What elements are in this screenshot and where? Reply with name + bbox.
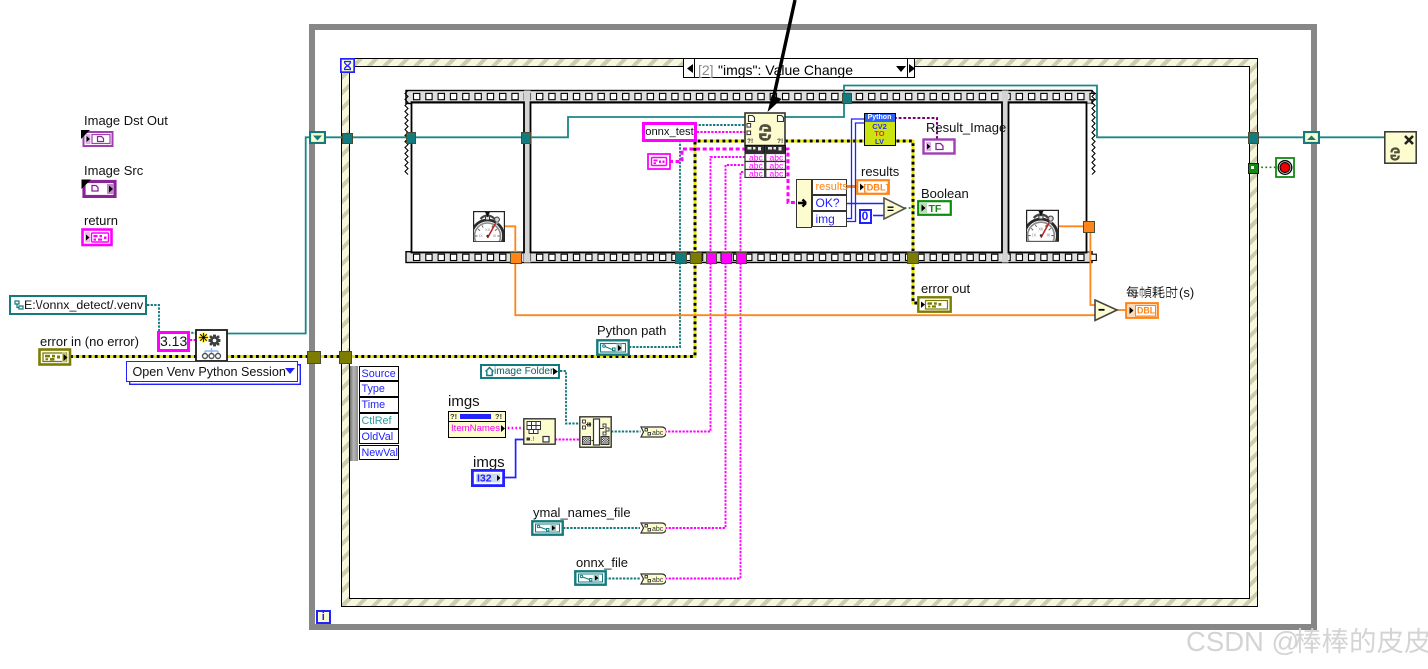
control onnx_file	[574, 570, 607, 586]
label ymal_names_file	[533, 506, 631, 519]
constant image Folder	[480, 364, 560, 380]
node Close Python Session	[1384, 131, 1417, 164]
tunnel: img path string bottom strip	[706, 252, 718, 264]
terminal imgs I32	[471, 469, 505, 487]
wire: ymal names string to python node	[665, 165, 745, 528]
event timeout terminal (hourglass)	[340, 58, 355, 73]
wire: session across loop and event into sequence	[325, 117, 745, 137]
control ymal_names_file	[531, 520, 564, 536]
tunnel: error out bottom strip	[907, 252, 919, 264]
wire: stop button to event tunnel	[1257, 166, 1276, 168]
wire: image Folder path to Build Path	[560, 371, 580, 424]
control Python path	[596, 339, 630, 356]
indicator 每帧耗时 DBL	[1125, 302, 1159, 319]
wire: python session from Open Venv up into while loop	[227, 137, 310, 333]
tunnel: error wire bottom strip	[690, 252, 702, 264]
event structure border	[341, 58, 1258, 607]
label imgs (property node)	[448, 394, 480, 409]
tunnel: frame1 tick count bottom	[510, 252, 522, 264]
node Python Node (run onnx_test)	[744, 112, 787, 178]
terminal Image Src	[80, 177, 118, 198]
wire: 0 constant to equals node	[873, 215, 884, 217]
tunnel: error in on event border	[339, 351, 353, 365]
node Index Array	[523, 418, 556, 445]
wire: error in across diagram to python node	[70, 141, 745, 357]
wire: CV2 TO LV image out to Result_Image	[894, 118, 937, 140]
node CV2 TO LV	[864, 113, 896, 147]
wire: 3.13 version string to Open Venv node	[190, 339, 196, 341]
wire: img 2D array to CV2 TO LV node	[847, 119, 864, 219]
event data node	[350, 366, 398, 461]
wire: equals result to Boolean indicator	[905, 207, 919, 209]
label box Open Venv Python Session	[126, 361, 298, 382]
event structure selector label	[683, 58, 915, 78]
label Image Src	[84, 164, 143, 177]
wire: results array to DBL array indicator	[847, 185, 857, 188]
indicator Boolean TF	[917, 200, 952, 216]
wire: imgs I32 index to Index Array	[504, 440, 524, 478]
label Image Dst Out	[84, 114, 168, 127]
tunnel: stop boolean on event border	[1248, 163, 1260, 175]
wire: frame1 tick count down and across to subtract	[504, 226, 1095, 315]
constant venv path	[9, 295, 147, 315]
tunnel: session out event border	[1248, 132, 1260, 144]
tunnel: error in on while loop border	[307, 351, 321, 365]
label error out	[921, 282, 970, 295]
wire: image path string to python node	[665, 157, 746, 432]
wire: session from python node to top tunnel and right to event/loop edge	[785, 86, 1304, 138]
constant onnx_test	[642, 122, 697, 143]
stop button	[1275, 157, 1295, 178]
label onnx_file	[576, 556, 628, 569]
property node imgs ItemNames	[448, 411, 506, 438]
wire: cluster constant to python node	[669, 149, 745, 162]
node Build Path	[579, 416, 612, 448]
wire: ItemNames property to Index Array	[504, 427, 524, 430]
tunnel: onnx string bottom strip	[736, 252, 748, 264]
wire: session from loop shift register to Close Python Session	[1318, 136, 1384, 138]
node Path To String (ymal)	[640, 522, 666, 534]
label Boolean	[921, 187, 969, 200]
node Tick Count frame 3 (stopwatch)	[1026, 209, 1059, 243]
node Subtract	[1094, 299, 1119, 322]
wire: onnx_test module name to python node	[668, 131, 745, 133]
wire: frame3 tick count out to subtract	[1059, 226, 1095, 305]
node Path To String (onnx)	[640, 573, 666, 585]
node Path To String (image path)	[640, 426, 666, 438]
tunnel: frame3 tick count right border	[1083, 221, 1095, 233]
constant 0	[859, 209, 872, 224]
node equals	[883, 197, 907, 220]
label Result_Image	[926, 121, 1006, 134]
wire: result cluster from python node to unbundle	[785, 149, 796, 203]
node Unbundle By Name	[796, 179, 848, 228]
wire: venv path constant to Open Venv node	[147, 305, 196, 333]
label Python path	[597, 324, 666, 337]
label imgs (I32)	[473, 455, 505, 470]
shift register left	[309, 131, 326, 144]
label error in (no error)	[40, 335, 139, 348]
tunnel: session out top of sequence	[842, 93, 852, 105]
terminal Result_Image	[922, 138, 956, 155]
node Open Venv Python Session	[195, 329, 228, 362]
tunnel: python path bottom strip	[675, 252, 687, 264]
wire: onnx file string to python node	[665, 172, 745, 579]
constant empty cluster	[647, 153, 671, 170]
label return	[84, 214, 118, 227]
node Tick Count frame 1 (stopwatch)	[473, 211, 505, 242]
terminal error in	[38, 348, 72, 366]
wire: Python path control up into python node	[629, 125, 745, 347]
constant 3.13	[157, 331, 190, 352]
wire: ymal_names_file to Path To String	[563, 527, 640, 529]
wire: OK? to equals node	[847, 203, 884, 205]
tunnel: session into sequence frame 1	[406, 132, 417, 144]
tunnel: session on event left border	[342, 133, 353, 144]
label results	[861, 165, 899, 178]
wire: error out from python node down to error out indicator	[785, 141, 918, 303]
annotation arrow pointing to python node	[740, 0, 820, 115]
while loop border	[309, 24, 1317, 630]
wire: subtract result to DBL indicator	[1117, 309, 1126, 311]
indicator error out	[917, 296, 952, 313]
wire: Index Array element to Build Path	[555, 439, 580, 441]
wire: Build Path to Path To String	[611, 431, 641, 433]
shift register right	[1303, 131, 1320, 144]
terminal Image Dst Out	[80, 128, 116, 147]
tunnel: session frame divider	[521, 132, 532, 144]
loop iteration terminal i	[316, 610, 331, 624]
wire: onnx_file to Path To String	[605, 578, 640, 580]
tunnel: ymal string bottom strip	[721, 252, 733, 264]
indicator results DBL array	[856, 179, 890, 195]
svg-text:CSDN @: CSDN @	[1186, 626, 1299, 657]
terminal return (cluster)	[81, 228, 114, 247]
